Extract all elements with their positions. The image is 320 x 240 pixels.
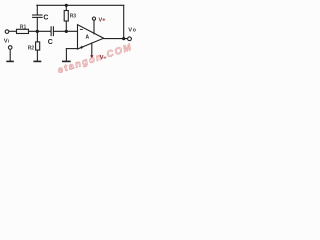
svg-text:R1: R1: [20, 24, 27, 30]
svg-text:R3: R3: [70, 14, 77, 20]
svg-text:i: i: [8, 39, 9, 44]
svg-text:R2: R2: [28, 45, 35, 51]
svg-text:o: o: [133, 28, 136, 34]
svg-text:C: C: [48, 39, 53, 46]
svg-text:A: A: [86, 35, 90, 41]
svg-text:V−: V−: [100, 55, 108, 61]
svg-text:V: V: [128, 27, 132, 33]
svg-text:C: C: [43, 14, 48, 21]
svg-text:V+: V+: [99, 17, 107, 23]
